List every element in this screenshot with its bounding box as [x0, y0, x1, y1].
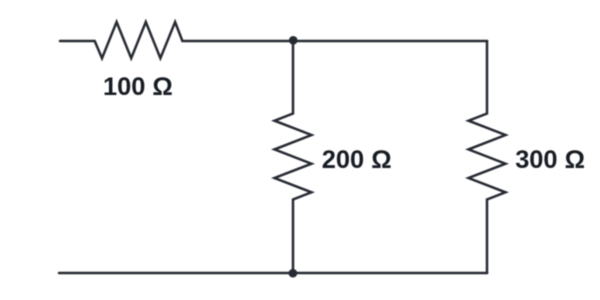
svg-text:200 Ω: 200 Ω — [322, 146, 392, 174]
svg-text:300 Ω: 300 Ω — [515, 146, 585, 174]
svg-text:100 Ω: 100 Ω — [103, 73, 173, 101]
